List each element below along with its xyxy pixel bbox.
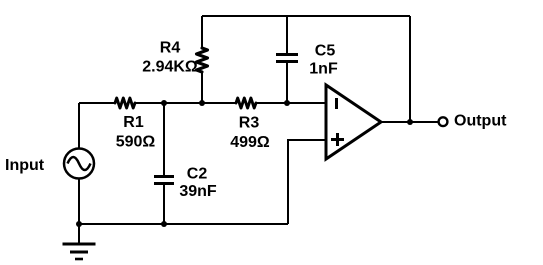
resistor R1: [115, 98, 135, 108]
capacitor C5: [276, 55, 298, 62]
svg-text:C2: C2: [187, 166, 208, 183]
svg-text:499Ω: 499Ω: [230, 134, 270, 151]
node B junction (R4): [199, 100, 205, 106]
svg-text:R3: R3: [239, 115, 260, 132]
svg-text:1nF: 1nF: [309, 61, 338, 78]
wire op-amp output to terminal: [381, 121, 438, 123]
node A junction (R1/C2): [161, 100, 167, 106]
svg-text:R4: R4: [160, 40, 181, 57]
resistor R4 (vertical): [197, 48, 208, 72]
svg-text:590Ω: 590Ω: [116, 134, 156, 151]
svg-text:39nF: 39nF: [179, 183, 217, 200]
svg-text:2.94KΩ: 2.94KΩ: [142, 59, 198, 76]
output terminal: [439, 117, 448, 126]
wire input column bottom (source to ground rail): [78, 179, 80, 224]
wire right vertical from top rail to output node: [409, 16, 411, 122]
svg-text:Input: Input: [5, 157, 45, 174]
svg-text:C5: C5: [315, 43, 336, 60]
wire C5 upper lead: [286, 16, 288, 53]
node ground-rail C2 junction: [161, 221, 167, 227]
op-amp non-inverting pin mark: [331, 133, 344, 146]
AC source input: [64, 149, 94, 179]
wire non-inverting input to ground rail: [288, 140, 326, 224]
wire C2 upper lead: [163, 103, 165, 175]
wire R4 lower lead: [201, 72, 203, 103]
wire R4 upper lead: [201, 16, 203, 48]
wire middle: R3 to op-amp inverting input: [256, 102, 326, 104]
op-amp inverting pin mark: [335, 98, 338, 109]
wire C5 lower lead: [286, 63, 288, 103]
wire input column top (source to middle wire): [78, 103, 80, 149]
wire C2 lower lead: [163, 185, 165, 224]
resistor R3: [236, 98, 256, 108]
wire bottom ground rail: [79, 223, 288, 225]
wire top feedback rail: [202, 15, 410, 17]
ground: [63, 224, 96, 259]
op-amp U1: [326, 85, 381, 159]
node output junction: [407, 119, 413, 125]
svg-text:R1: R1: [123, 114, 144, 131]
node C junction (C5): [284, 100, 290, 106]
node ground-rail source junction: [76, 221, 82, 227]
wire middle: input column to R1: [79, 102, 115, 104]
wire middle: R1 to R3 through nodes A and B: [135, 102, 236, 104]
svg-text:Output: Output: [454, 113, 507, 130]
capacitor C2: [154, 177, 174, 184]
